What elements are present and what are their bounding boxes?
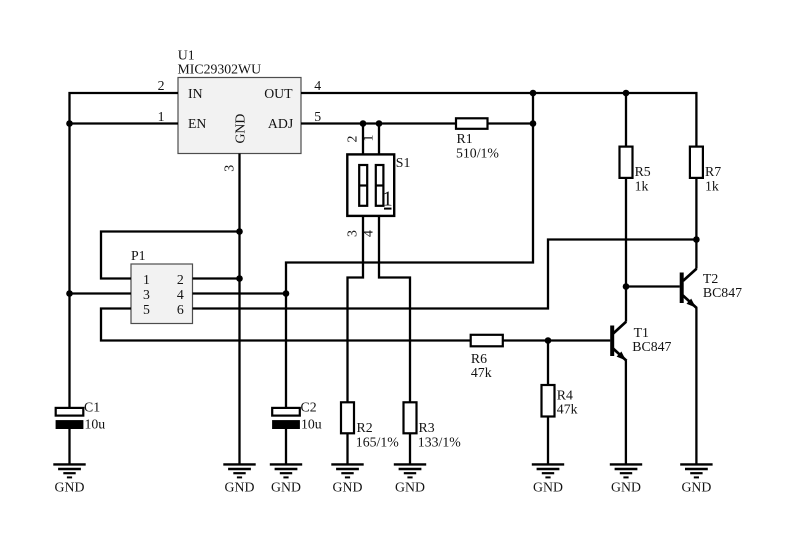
svg-text:10u: 10u [301,416,322,431]
svg-text:R2: R2 [357,420,373,435]
svg-text:EN: EN [188,116,206,131]
svg-text:1k: 1k [705,179,719,194]
svg-text:P1: P1 [131,248,146,263]
svg-text:47k: 47k [471,365,492,380]
svg-text:T2: T2 [703,271,718,286]
svg-text:4: 4 [361,230,376,237]
svg-text:4: 4 [177,287,184,302]
svg-text:C2: C2 [301,400,317,415]
svg-text:R3: R3 [419,420,435,435]
svg-text:165/1%: 165/1% [356,434,399,449]
svg-text:GND: GND [271,479,301,494]
svg-text:U1: U1 [178,48,195,63]
svg-text:4: 4 [314,78,321,93]
svg-text:R6: R6 [471,351,487,366]
svg-text:BC847: BC847 [632,339,671,354]
svg-text:3: 3 [143,287,150,302]
svg-text:1k: 1k [635,179,649,194]
svg-text:GND: GND [533,479,563,494]
svg-text:10u: 10u [85,416,106,431]
svg-text:3: 3 [345,230,360,237]
svg-text:47k: 47k [557,402,578,417]
svg-text:3: 3 [222,165,237,172]
svg-text:133/1%: 133/1% [418,434,461,449]
svg-text:ADJ: ADJ [268,116,294,131]
svg-text:R4: R4 [557,387,573,402]
svg-text:1: 1 [361,134,376,141]
svg-text:GND: GND [681,479,711,494]
svg-text:T1: T1 [634,325,649,340]
svg-text:OUT: OUT [264,86,293,101]
svg-text:GND: GND [333,479,363,494]
svg-text:MIC29302WU: MIC29302WU [178,62,262,77]
svg-text:GND: GND [225,479,255,494]
svg-text:6: 6 [177,302,184,317]
svg-text:1: 1 [382,187,393,211]
svg-text:5: 5 [143,302,150,317]
svg-text:GND: GND [233,114,248,144]
svg-text:2: 2 [177,272,184,287]
svg-text:1: 1 [158,109,165,124]
svg-text:R1: R1 [457,131,473,146]
svg-text:510/1%: 510/1% [456,145,499,160]
svg-text:GND: GND [611,479,641,494]
svg-text:BC847: BC847 [703,285,742,300]
svg-text:R7: R7 [705,164,721,179]
svg-text:R5: R5 [635,164,651,179]
svg-text:1: 1 [143,272,150,287]
svg-text:S1: S1 [396,155,411,170]
svg-text:C1: C1 [84,400,100,415]
svg-text:5: 5 [314,109,321,124]
svg-text:GND: GND [55,479,85,494]
svg-text:2: 2 [158,78,165,93]
svg-text:IN: IN [188,86,203,101]
svg-text:GND: GND [395,479,425,494]
svg-text:2: 2 [345,135,360,142]
